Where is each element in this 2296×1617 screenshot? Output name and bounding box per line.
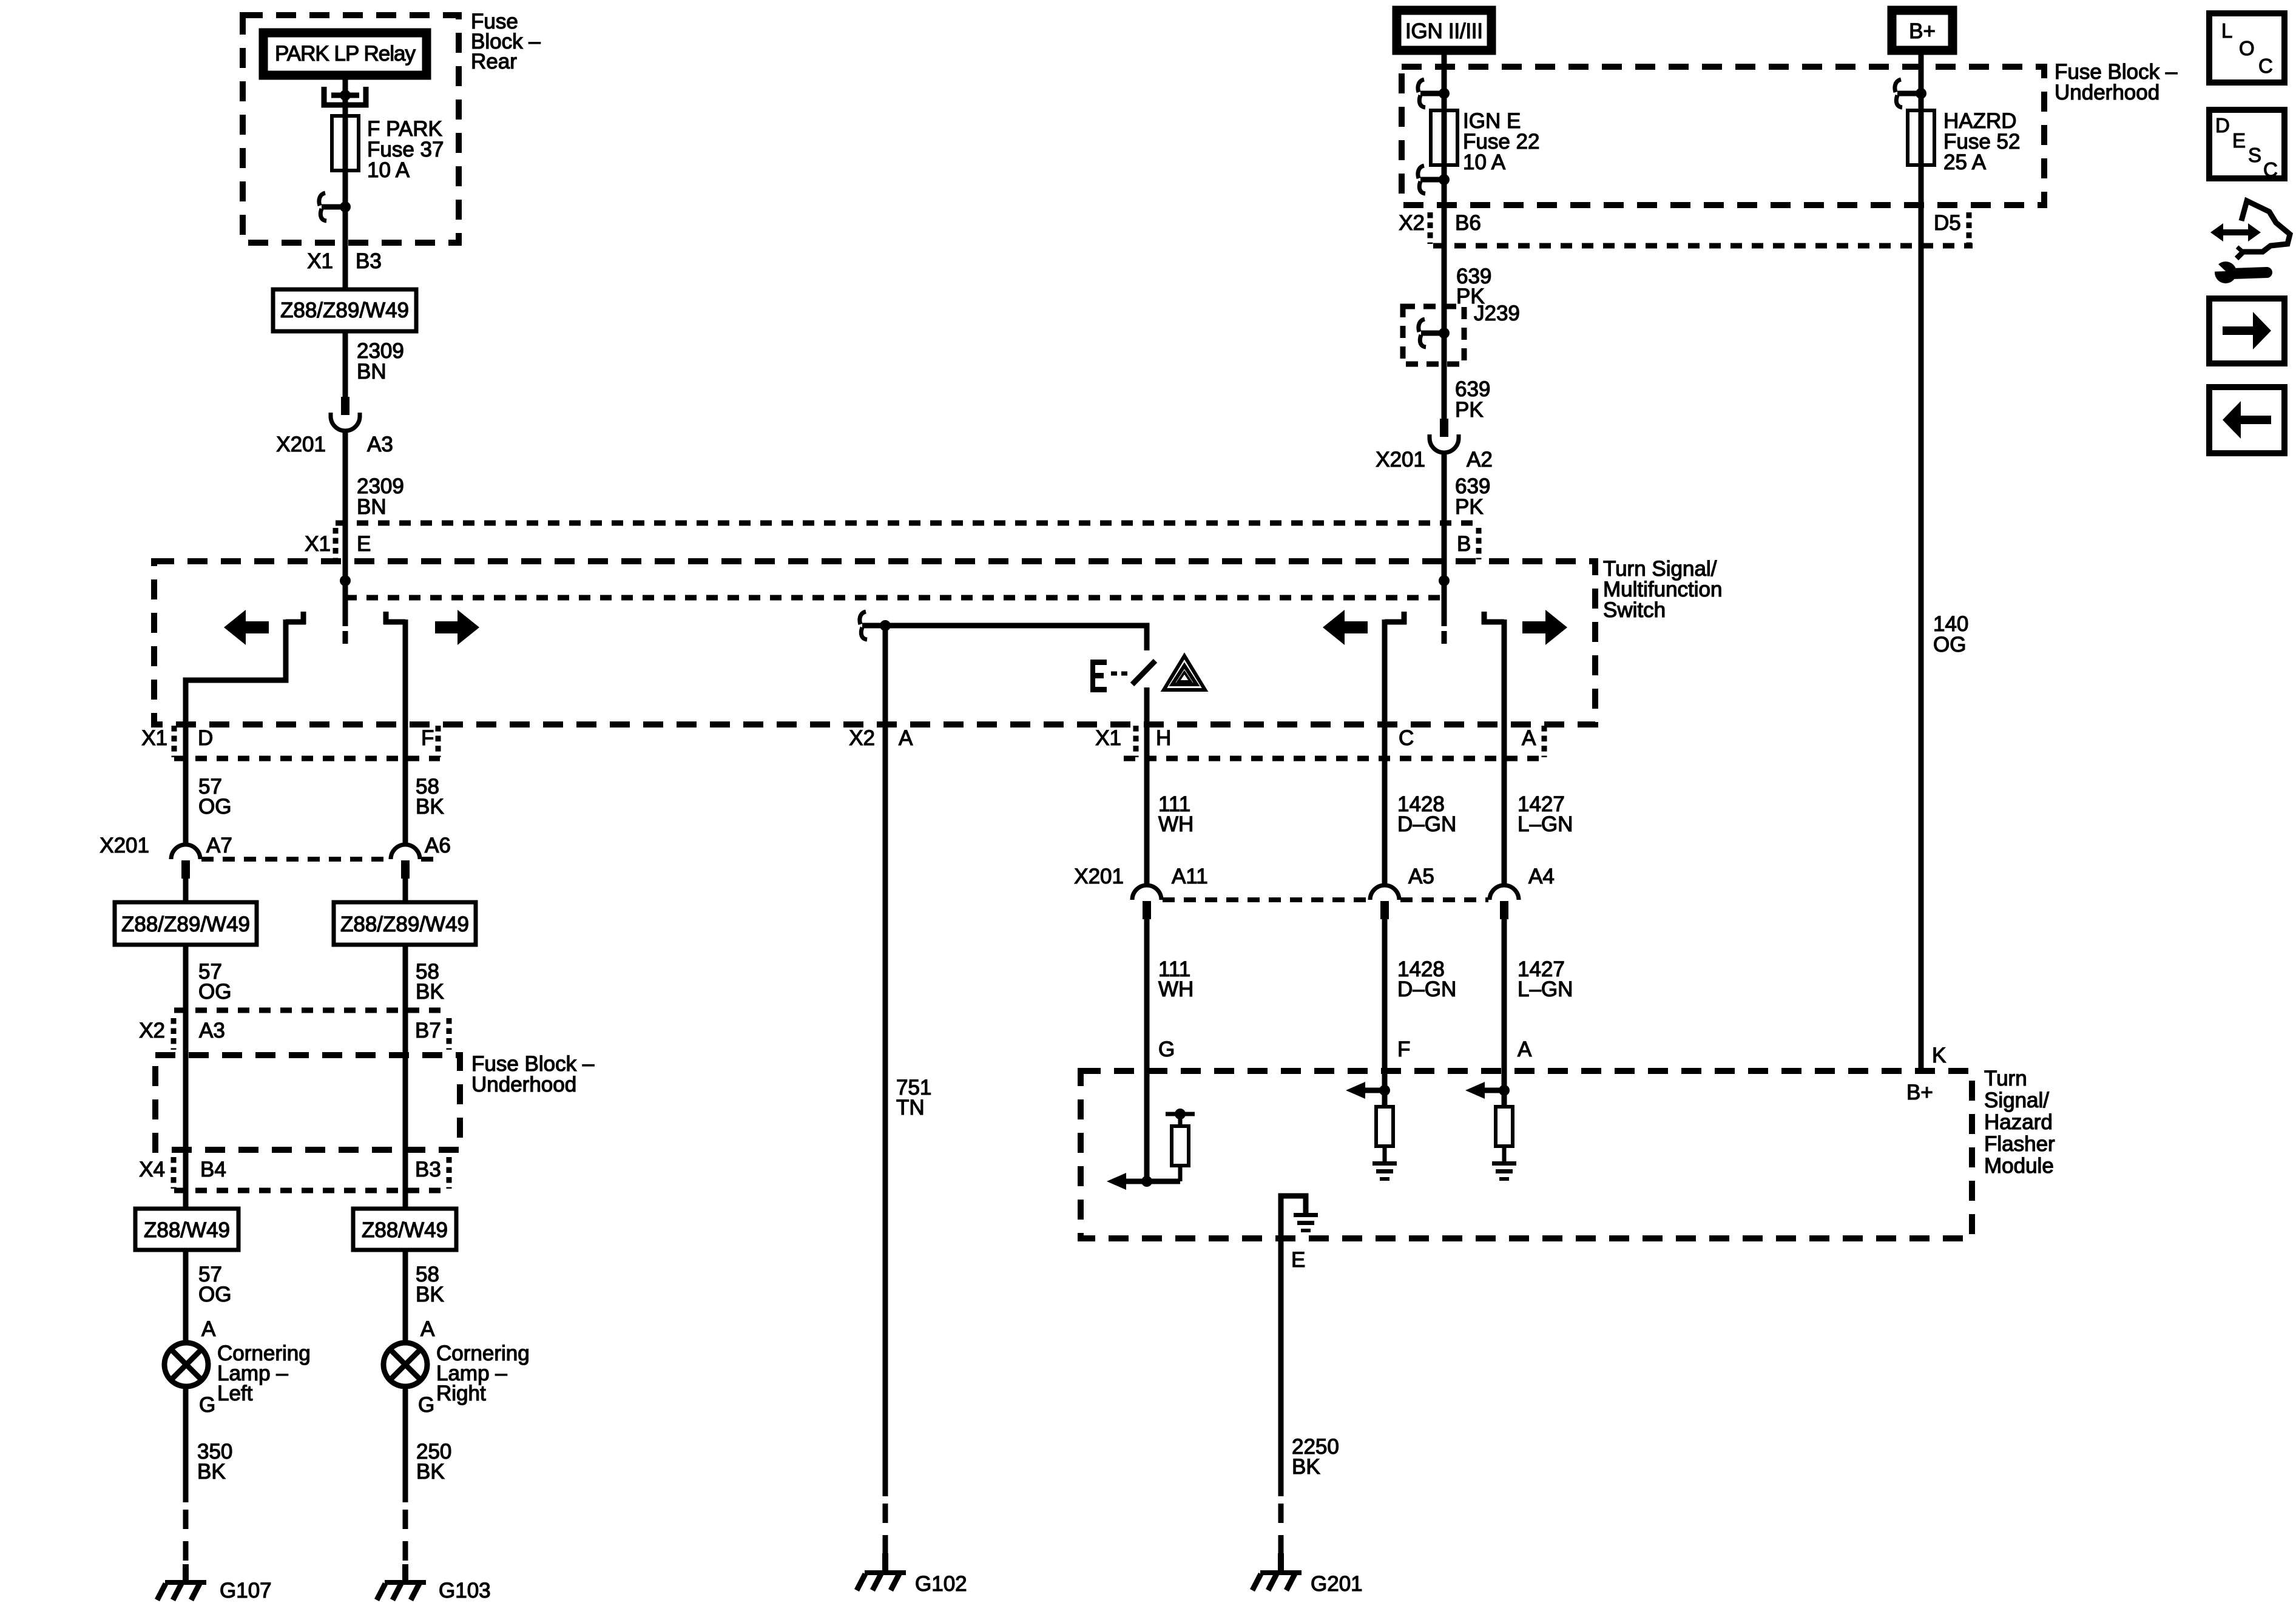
power feed B+ box [1892,10,1953,50]
svg-text:B: B [1457,532,1471,556]
svg-text:A: A [420,1317,435,1341]
svg-text:X2: X2 [139,1019,165,1042]
wire 1428 D-GN lower [1385,919,1456,1090]
wire F to harness box [403,879,408,902]
svg-text:D–GN: D–GN [1397,977,1456,1001]
svg-text:D5: D5 [1934,211,1961,235]
module ground on F leg [1373,1161,1397,1181]
left turn throw contact to pin D [186,612,306,724]
hazard switch blade [1132,661,1155,684]
svg-text:10 A: 10 A [1463,150,1506,174]
module resistor R1 on G leg [1166,1109,1195,1181]
svg-text:G: G [418,1393,434,1417]
svg-text:WH: WH [1158,812,1194,836]
hazard switch knob E dashes [1090,660,1127,692]
connector row X4 B4 B3 [139,1157,449,1190]
svg-text:A5: A5 [1408,865,1434,888]
turn signal hazard flasher module dashed box [1081,1071,1972,1238]
fuse IGN E Fuse 22 10A [1431,109,1539,174]
svg-text:E: E [2232,129,2246,152]
wire 111 WH lower [1147,919,1194,1071]
svg-text:B+: B+ [1909,19,1936,43]
svg-text:B3: B3 [415,1158,441,1181]
wire 2250 BK [1281,1238,1339,1553]
svg-text:E: E [1291,1248,1305,1272]
connector row X1 E ... B top of switch [305,523,1481,559]
wire relay fuse to splice [343,170,348,243]
wire 57 OG mid [186,945,231,1055]
relay PARK LP Relay [263,33,427,75]
svg-text:A: A [899,726,913,750]
connector X201 A6 inline [391,845,420,879]
svg-text:X201: X201 [1074,865,1124,888]
svg-text:BK: BK [416,1283,444,1306]
cornering lamp right label [436,1342,530,1405]
svg-text:TN: TN [896,1096,925,1119]
wire B+ feed into fuse block [1919,55,1924,110]
hazard feed wire to switch blade [885,626,1147,650]
wire 58 BK upper [405,724,444,845]
svg-text:L–GN: L–GN [1518,812,1573,836]
svg-text:B7: B7 [415,1019,441,1042]
svg-text:BK: BK [416,980,444,1004]
svg-text:F: F [421,726,434,750]
icon vehicle double arrow [2210,223,2261,241]
svg-text:A7: A7 [206,834,232,857]
hazard warning triangle icon [1164,656,1205,690]
svg-text:B3: B3 [356,249,382,273]
svg-text:X1: X1 [141,726,167,750]
svg-text:D–GN: D–GN [1397,812,1456,836]
wire 1428 D-GN upper [1385,724,1456,885]
svg-text:Module: Module [1984,1154,2054,1178]
fuse block - rear dashed box [243,15,459,243]
svg-text:A4: A4 [1528,865,1555,888]
module F leg arrow and junction [1346,1071,1390,1107]
svg-text:BK: BK [197,1460,226,1484]
wire 58 BK lower [405,1250,444,1343]
wire 1427 L-GN lower [1504,919,1573,1090]
svg-text:BK: BK [1292,1455,1320,1479]
terminal hook below fuse IGN E [1418,166,1450,194]
node B pole junction [1439,561,1450,626]
svg-text:C: C [2258,55,2273,77]
svg-text:Turn: Turn [1984,1067,2027,1090]
fuse block - underhood left label [471,1052,595,1096]
connector X201 A2 inline [1376,419,1493,471]
svg-text:Signal/: Signal/ [1984,1089,2049,1112]
icon LOC box [2209,13,2284,83]
harness box Z88/Z89/W49 top [273,289,416,331]
ground G201 [1252,1553,1363,1596]
power feed IGN II/III box [1397,10,1491,50]
wire 140 OG B+ run [1921,246,1968,1071]
connector X1 B3 labels [307,249,382,273]
wire D through fuse block [183,1055,189,1209]
svg-text:X201: X201 [100,834,149,857]
icon right arrow box [2209,299,2284,363]
svg-text:PK: PK [1455,495,1484,519]
connector X201 A3 inline [276,397,393,456]
hazard feed terminal hook [860,612,885,640]
ground G102 [857,1553,967,1596]
splice hook in fuse block rear [319,193,351,221]
pin B+ label inside module [1906,1081,1933,1104]
module A leg arrow and junction [1465,1071,1510,1107]
wire X1 B3 [343,243,348,289]
svg-text:Switch: Switch [1603,598,1666,622]
svg-text:A11: A11 [1172,865,1208,888]
wire 639 PK upper [1444,246,1491,308]
connector row X2 A3 B7 [139,1010,449,1050]
svg-text:Underhood: Underhood [471,1073,576,1096]
svg-text:O: O [2239,37,2255,59]
connector X201 A5 inline [1370,885,1399,919]
terminal hook above fuse HAZRD [1895,79,1926,107]
fuse block - underhood dashed box [1402,67,2044,205]
svg-text:Left: Left [217,1382,253,1405]
terminal hook above fuse IGN E [1418,79,1450,107]
relay output bracket [324,79,366,116]
hazard feed junction node [880,620,891,631]
wire HAZRD fuse down [1919,165,1924,246]
wire 111 WH upper [1147,724,1194,885]
svg-text:OG: OG [1933,633,1966,657]
svg-text:H: H [1156,726,1171,750]
svg-text:Right: Right [436,1382,486,1405]
svg-text:Z88/Z89/W49: Z88/Z89/W49 [121,913,250,936]
svg-text:L: L [2221,19,2232,42]
svg-text:F: F [1397,1038,1410,1061]
left turn throw contact to pin C [1385,612,1406,724]
svg-text:X4: X4 [139,1158,165,1181]
left turn arrow left side [224,610,269,645]
svg-text:G102: G102 [915,1572,967,1596]
cornering lamp left label [217,1342,311,1405]
cornering lamp right symbol [383,1343,427,1386]
wire 639 PK lower [1444,453,1490,561]
svg-text:A: A [201,1317,216,1341]
left turn arrow right side [1323,610,1368,645]
connector row X201 A7 A6 [100,834,451,859]
turn signal multifunction switch dashed box [154,561,1595,724]
fuse block - rear label [471,10,541,73]
svg-text:Flasher: Flasher [1984,1132,2055,1156]
svg-text:A: A [1518,1038,1532,1061]
ground G107 [157,1564,272,1602]
icon vehicle outline [2237,201,2290,258]
icon DESC box [2209,110,2284,181]
splice J239 dashed box [1403,302,1520,364]
right turn throw contact to pin F [383,612,405,724]
connector X201 A7 inline [171,845,200,879]
right turn arrow left side [435,610,479,645]
wire IGN feed into fuse block [1442,55,1447,110]
svg-text:G201: G201 [1311,1572,1363,1596]
wire 57 OG upper [186,724,231,845]
svg-text:WH: WH [1158,977,1194,1001]
svg-text:G: G [199,1393,215,1417]
svg-text:Z88/W49: Z88/W49 [362,1218,448,1242]
svg-text:S: S [2248,144,2261,166]
wire D to harness box [183,879,189,902]
svg-text:A: A [1522,726,1536,750]
wire 250 BK to ground [405,1386,451,1564]
svg-text:OG: OG [198,795,231,819]
connector row X2 B6 D5 [1399,211,1973,246]
svg-text:X1: X1 [307,249,333,273]
svg-text:PK: PK [1455,398,1484,422]
svg-text:B6: B6 [1455,211,1481,235]
wire 2309 BN lower [345,431,404,561]
connector labels X2 A below switch [849,726,913,750]
fuse block - underhood left dashed box [155,1055,460,1150]
svg-text:E: E [357,532,371,556]
module internal ground on E leg [1281,1196,1318,1238]
svg-text:A2: A2 [1467,448,1493,471]
harness box Z88/W49 right [353,1209,456,1250]
svg-text:C: C [2263,158,2278,181]
svg-text:D: D [2215,114,2230,137]
module resistor R2 on F leg [1376,1107,1393,1163]
svg-text:PARK LP Relay: PARK LP Relay [275,42,416,66]
svg-text:K: K [1932,1044,1946,1067]
splice J239 symbol [1419,306,1450,364]
connector row X201 A11 A5 A4 [1074,865,1555,900]
right turn arrow right side [1522,610,1567,645]
ground G103 [377,1564,491,1602]
connector row X1 H C A below switch [1095,726,1544,758]
wire 751 TN to ground dashes [883,1504,888,1553]
node E pole junction [340,561,351,626]
svg-text:D: D [198,726,213,750]
svg-text:A3: A3 [367,433,393,456]
wire 1427 L-GN upper [1504,724,1573,885]
svg-text:A3: A3 [199,1019,225,1042]
svg-text:25 A: 25 A [1943,150,1987,174]
wire 58 BK mid [405,945,444,1055]
turn signal hazard flasher module label [1984,1067,2055,1178]
wire IGN E fuse to connector row [1442,165,1447,246]
svg-text:BK: BK [416,1460,445,1484]
pin K label [1932,1044,1946,1067]
svg-text:G: G [1158,1038,1175,1061]
svg-text:L–GN: L–GN [1518,977,1573,1001]
svg-text:Rear: Rear [471,50,517,73]
connector X201 A4 inline [1490,885,1519,919]
svg-text:A6: A6 [425,834,451,857]
svg-text:Underhood: Underhood [2055,81,2159,104]
svg-text:J239: J239 [1474,302,1520,325]
harness box Z88/W49 left [135,1209,238,1250]
svg-text:G107: G107 [220,1579,272,1602]
wire 2309 BN upper [345,331,404,397]
svg-text:G103: G103 [439,1579,491,1602]
svg-text:X201: X201 [276,433,326,456]
svg-text:Z88/Z89/W49: Z88/Z89/W49 [340,913,469,936]
icon left arrow box [2209,387,2284,453]
svg-text:X2: X2 [849,726,875,750]
svg-text:Hazard: Hazard [1984,1110,2053,1134]
switch pole E open contact [343,631,348,644]
fuse block - underhood label [2055,60,2178,104]
wire F through fuse block [403,1055,408,1209]
inner feed dotted line E to B [345,595,1443,601]
svg-text:B4: B4 [200,1158,226,1181]
wire 639 PK middle [1444,364,1490,422]
svg-text:10 A: 10 A [367,158,410,182]
harness box Z88/Z89/W49 left [115,902,257,945]
module G leg wire and left arrow [1107,1071,1180,1190]
svg-text:X201: X201 [1376,448,1425,471]
svg-text:X1: X1 [305,532,331,556]
svg-text:OG: OG [198,980,231,1004]
svg-text:IGN II/III: IGN II/III [1405,19,1483,43]
svg-text:BK: BK [416,795,444,819]
svg-text:Z88/Z89/W49: Z88/Z89/W49 [280,299,409,322]
right turn throw contact to pin A [1482,612,1504,724]
svg-text:OG: OG [198,1283,231,1306]
svg-text:B+: B+ [1906,1081,1933,1104]
svg-text:Z88/W49: Z88/W49 [144,1218,230,1242]
fuse F PARK Fuse 37 10A [332,116,444,182]
hazard switch lower contact wire to pin H [1144,687,1150,724]
module ground on A leg [1492,1161,1516,1181]
wire 751 TN label [896,1076,931,1119]
svg-text:BN: BN [357,360,387,383]
svg-text:X2: X2 [1399,211,1425,235]
harness box Z88/Z89/W49 right [334,902,476,945]
svg-text:BN: BN [357,495,387,519]
icon wrench [2207,256,2267,283]
fuse HAZRD Fuse 52 25A [1908,109,2020,174]
connector X201 A11 inline [1132,885,1161,919]
cornering lamp left symbol [164,1343,208,1386]
wire 57 OG lower [186,1250,231,1343]
switch pole B open contact [1442,631,1447,644]
svg-text:X1: X1 [1095,726,1121,750]
module resistor R3 on A leg [1496,1107,1513,1163]
turn signal multifunction switch label [1603,557,1722,622]
pin E label [1291,1248,1305,1272]
connector row X1 D F below switch [141,726,440,758]
svg-text:C: C [1399,726,1414,750]
wire 350 BK to ground [186,1386,232,1564]
wire X2 A from hazard feed down [883,626,888,1496]
